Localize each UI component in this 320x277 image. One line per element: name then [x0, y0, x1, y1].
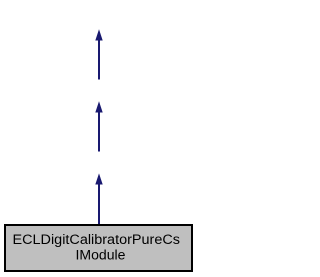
inheritance arrow 3 (bottom)	[95, 173, 102, 224]
inheritance arrow 2 (middle)	[95, 101, 102, 151]
node border and grey fill	[5, 225, 192, 271]
inheritance arrow 1 (top)	[95, 29, 102, 79]
svg-text:IModule: IModule	[76, 248, 126, 263]
class node box ECLDigitCalibratorPureCsIModule	[5, 225, 192, 271]
svg-text:ECLDigitCalibratorPureCs: ECLDigitCalibratorPureCs	[13, 232, 181, 247]
